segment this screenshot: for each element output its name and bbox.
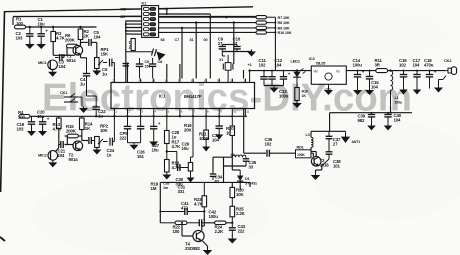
IC IC2 regulator <box>309 56 346 92</box>
IC1 bottom pin 4 <box>154 109 157 117</box>
svg-text:R8 10K: R8 10K <box>278 21 290 25</box>
capacitor C6 coupling <box>102 59 114 77</box>
IC1 top pin 14 <box>217 79 221 83</box>
svg-text:100: 100 <box>173 229 181 234</box>
svg-text:15K: 15K <box>101 51 110 56</box>
net label B1 <box>120 15 125 19</box>
capacitor C18 <box>424 58 437 89</box>
svg-text:331: 331 <box>178 189 186 194</box>
svg-text:470u: 470u <box>424 62 434 67</box>
svg-text:Electronics-DIY.com: Electronics-DIY.com <box>42 77 412 120</box>
IC1 top pin 12 <box>243 79 247 83</box>
svg-text:4.7K: 4.7K <box>194 201 204 206</box>
resistor R15 <box>66 124 78 138</box>
capacitor C16 <box>399 58 408 95</box>
svg-text:222: 222 <box>120 135 128 140</box>
svg-text:00: 00 <box>204 38 208 42</box>
svg-text:10K: 10K <box>236 192 245 197</box>
svg-text:10K: 10K <box>100 128 109 133</box>
capacitor C5 <box>89 30 101 46</box>
IC1 bottom pin 11 <box>245 109 249 117</box>
IC1 top pin 20 <box>138 79 142 83</box>
resistor R13 <box>53 116 63 131</box>
label plus rail <box>248 63 252 67</box>
svg-text:Vo: Vo <box>336 70 340 74</box>
label C8p <box>145 60 152 68</box>
ground crystal caps <box>247 50 256 57</box>
switch K1 element 6 <box>143 33 155 36</box>
page top border <box>4 7 253 12</box>
switch block K1 outline <box>142 0 159 37</box>
wire R9 to bus <box>267 27 276 29</box>
transistor T3 <box>311 157 329 168</box>
resistor R1 <box>15 17 26 29</box>
svg-text:102: 102 <box>259 62 267 67</box>
capacitor C8 tilted with ground <box>152 49 166 65</box>
wire R3 to T1 base <box>53 42 75 56</box>
node K1 left bus joints <box>125 23 127 32</box>
transistor T4 <box>185 230 204 251</box>
resistor R20b <box>230 187 245 197</box>
wire R7 to bus <box>267 16 276 18</box>
resistor R7 <box>256 16 290 20</box>
resistor R14 <box>80 116 94 131</box>
resistor R4 <box>18 110 30 119</box>
ground below C20 <box>38 130 47 137</box>
wire K1 left row1 <box>122 8 142 10</box>
wire pull-up bus vertical <box>274 17 276 70</box>
wire L1 to RF rail <box>390 106 392 113</box>
capacitor C32 <box>212 116 223 142</box>
resistor R25 <box>230 198 246 224</box>
svg-text:4.7K: 4.7K <box>53 126 63 131</box>
svg-text:ANT1: ANT1 <box>352 140 361 144</box>
svg-text:100u: 100u <box>353 62 363 67</box>
ground below C1 <box>36 42 46 49</box>
resistor R19 small box <box>187 157 195 183</box>
IC1 top pin 16 <box>191 79 195 83</box>
wire caps bottom tie <box>264 85 284 87</box>
resistor R11 <box>375 58 388 73</box>
svg-text:1M: 1M <box>151 186 157 191</box>
capacitor C20 <box>37 110 50 131</box>
capacitor C2 <box>16 27 34 44</box>
capacitor C1 <box>38 17 49 44</box>
svg-text:151: 151 <box>137 154 145 159</box>
capacitor C29 <box>177 142 190 168</box>
IC1 bottom pin 2 <box>128 109 131 117</box>
capacitor C26 <box>137 116 145 159</box>
ground below R18 <box>162 172 171 190</box>
capacitor C19 <box>17 116 36 131</box>
svg-text:R9 10K: R9 10K <box>278 27 290 31</box>
svg-text:10u: 10u <box>38 21 46 26</box>
capacitor C38 <box>322 145 341 169</box>
resistor R10 <box>256 31 292 35</box>
wire RD1 to T3 base <box>311 153 313 156</box>
capacitor C23 series <box>89 137 97 144</box>
svg-text:104: 104 <box>58 153 66 158</box>
svg-text:10: 10 <box>226 130 231 135</box>
capacitor C27 <box>149 116 161 152</box>
wire R10 to bus <box>267 31 276 33</box>
capacitor C30 series <box>176 164 189 186</box>
capacitor C7b on bus <box>123 64 130 66</box>
IC1 top pin 15 <box>204 79 208 83</box>
IC1 bottom pin 9 <box>219 109 222 117</box>
ground below MIC1 <box>48 70 57 77</box>
svg-text:78L05: 78L05 <box>316 61 326 65</box>
svg-text:C8: C8 <box>158 60 163 64</box>
ground below CK1 <box>79 107 88 114</box>
label drop a <box>161 38 165 42</box>
wire K1 left row3 <box>122 15 142 17</box>
svg-text:C7: C7 <box>175 38 180 42</box>
crystal X1 <box>219 52 233 83</box>
inductor L1 <box>391 71 402 106</box>
capacitor C9 crystal load <box>218 37 226 52</box>
capacitor C36 <box>265 137 273 157</box>
svg-text:100: 100 <box>18 114 26 119</box>
capacitor C22 <box>87 86 107 118</box>
svg-text:102: 102 <box>265 141 273 146</box>
wire pin6 drop <box>191 116 194 157</box>
svg-text:222: 222 <box>238 228 246 233</box>
bus junction dots <box>95 115 234 117</box>
node R2 junction <box>79 26 81 28</box>
ground below MIC2 <box>48 161 57 168</box>
node C2 junction <box>29 26 31 28</box>
svg-text:2SD882: 2SD882 <box>185 246 201 251</box>
wire K1 left bus <box>126 21 142 83</box>
svg-text:103: 103 <box>17 126 25 131</box>
wire R24 to C43 node <box>226 222 232 224</box>
label C31 <box>178 185 186 194</box>
ground below C19 <box>27 130 36 137</box>
IC U1 BH1417F body <box>111 83 255 109</box>
wire R14 to T2 collector <box>78 130 88 141</box>
resistor R17 <box>165 116 182 149</box>
wire Vcc drop to IC pin <box>248 69 250 82</box>
svg-text:1u: 1u <box>172 134 177 139</box>
resistor RD1 boxed <box>296 146 312 158</box>
label drop d <box>204 38 208 42</box>
wire D1 top <box>224 136 247 191</box>
svg-text:101: 101 <box>333 163 341 168</box>
IC1 bottom pin 6 <box>180 109 183 117</box>
ground below C43 <box>228 237 238 244</box>
capacitor above IC b <box>149 58 156 79</box>
capacitor C15 <box>365 71 379 95</box>
capacitor C37 <box>326 131 341 146</box>
svg-text:R7 10K: R7 10K <box>278 16 290 20</box>
label drop b <box>175 38 180 42</box>
microphone MIC1 <box>38 60 57 70</box>
svg-text:31: 31 <box>190 38 194 42</box>
capacitor C40rf <box>384 113 402 131</box>
svg-text:27: 27 <box>333 141 338 146</box>
IC1 top pin 17 <box>178 79 182 83</box>
transistor T2 <box>69 141 83 162</box>
capacitor C13 <box>279 71 291 99</box>
ground below RP1 <box>92 69 101 76</box>
svg-text:R10 10K: R10 10K <box>278 31 292 35</box>
wire K1 right rows <box>159 9 256 33</box>
capacitor C35 <box>243 157 257 169</box>
svg-text:20K: 20K <box>184 127 193 132</box>
svg-text:200K: 200K <box>66 128 77 133</box>
svg-text:33: 33 <box>249 164 254 169</box>
IC1 top pin 13 <box>230 79 234 83</box>
wire T1 collector to C5 <box>81 42 88 44</box>
svg-text:472: 472 <box>181 205 189 210</box>
svg-text:100K: 100K <box>199 136 210 141</box>
svg-text:Vin: Vin <box>314 70 319 74</box>
ground below IC2 <box>324 84 333 95</box>
resistor R2 <box>78 27 90 40</box>
capacitor C4 <box>80 58 90 87</box>
resistor R18 <box>165 144 182 173</box>
svg-text:103: 103 <box>16 35 24 40</box>
svg-text:4.7K: 4.7K <box>172 144 182 149</box>
svg-text:IC2: IC2 <box>309 56 316 61</box>
capacitor C43 <box>229 223 246 237</box>
svg-text:CK2: CK2 <box>444 58 452 63</box>
svg-text:9014: 9014 <box>67 58 77 63</box>
page edge mark lower-left <box>0 237 5 241</box>
wire R1 to R3 node <box>26 26 97 28</box>
IC1 top pin 19 <box>152 79 156 83</box>
transistor T1 <box>67 46 83 63</box>
svg-text:10u: 10u <box>152 147 160 152</box>
resistor R9 <box>256 26 290 30</box>
wire crystal caps join <box>222 45 251 52</box>
node R17 R18 <box>166 150 177 152</box>
resistor R24 <box>215 221 227 234</box>
potentiometer RP1 <box>95 47 110 69</box>
IC1 bottom pin 8 <box>206 109 209 117</box>
diode D1 varactor <box>237 170 257 186</box>
wire R1 loop to top rail <box>13 17 256 26</box>
ground below C2 <box>25 42 35 49</box>
svg-text:D1: D1 <box>245 177 250 181</box>
svg-text:W2: W2 <box>120 7 125 11</box>
IC1 top pin 18 <box>165 79 169 83</box>
wire RF rail <box>330 112 412 114</box>
connector CK1 line-in jack <box>60 90 82 107</box>
resistor R8 <box>256 21 290 25</box>
svg-text:X1: X1 <box>219 58 223 62</box>
node C1 junction <box>40 26 42 28</box>
LED LED1 <box>291 59 306 88</box>
wire C36 to RD1 <box>269 152 295 154</box>
switch K1 element 1 <box>143 7 155 10</box>
capacitor C28 label <box>172 130 180 139</box>
resistor R6 <box>65 33 78 48</box>
IC1 bottom pin 5 <box>167 109 170 117</box>
antenna ANT1 <box>341 131 360 144</box>
IC1 bottom pin 7 <box>193 109 196 117</box>
svg-text:104: 104 <box>413 62 421 67</box>
capacitor C17 <box>413 58 422 95</box>
svg-text:L3: L3 <box>306 133 310 137</box>
svg-text:82: 82 <box>215 179 220 184</box>
ground below T3 <box>311 173 321 181</box>
wire R13 to T2 base <box>59 129 68 145</box>
wire T4 base <box>182 223 193 236</box>
wire L3/collector <box>311 113 346 157</box>
capacitor CP5 <box>120 116 132 142</box>
svg-text:9014: 9014 <box>69 157 79 162</box>
capacitor C10 crystal load <box>233 37 241 52</box>
node bottom joins <box>159 210 205 224</box>
svg-text:100: 100 <box>16 21 24 26</box>
capacitor C24 <box>103 116 115 157</box>
ground below R16 <box>292 101 302 109</box>
wire bottom section top rail <box>160 182 250 222</box>
microphone MIC2 <box>38 151 58 161</box>
svg-text:200K: 200K <box>65 37 76 42</box>
node RF <box>371 112 392 114</box>
IC1 top pin 22 <box>112 79 116 83</box>
wire IC pin11 to C36 <box>244 109 266 154</box>
wire switch drops to IC pins <box>182 17 234 78</box>
node R3 junction <box>52 26 54 28</box>
switch K1 element 5 <box>143 28 155 31</box>
node T1 base <box>63 54 65 56</box>
svg-text:104: 104 <box>212 137 220 142</box>
svg-text:+1: +1 <box>248 63 252 67</box>
capacitor C14 <box>353 58 365 95</box>
resistor R5 <box>131 39 135 51</box>
capacitor C34 <box>210 172 223 184</box>
capacitor C11 <box>259 58 268 86</box>
svg-text:MIC1: MIC1 <box>38 60 48 65</box>
capacitor C12 <box>268 58 282 86</box>
ground CP5 C26 <box>128 143 141 150</box>
IC1 bottom pin 3 <box>141 109 144 117</box>
ground C11-C13 <box>270 86 279 93</box>
label drop c <box>190 38 194 42</box>
svg-text:68: 68 <box>161 38 165 42</box>
capacitor C7 <box>126 40 153 52</box>
junction rail LED <box>263 69 298 71</box>
net label W2 <box>120 7 125 11</box>
wire T4 collector <box>202 218 205 231</box>
svg-text:2.2K: 2.2K <box>236 211 246 216</box>
svg-text:1m: 1m <box>163 186 169 190</box>
wire R6 to collector <box>78 44 81 46</box>
wire MIC2 to C21 <box>55 145 59 153</box>
ground below RP2 <box>92 148 101 155</box>
ground below CK2 <box>434 86 443 93</box>
svg-text:1u: 1u <box>107 152 112 157</box>
svg-text:104: 104 <box>94 34 102 39</box>
label R19b <box>151 182 159 191</box>
resistor R23 <box>194 182 207 211</box>
wire R8 to bus <box>267 22 276 24</box>
resistor R22b <box>160 221 199 234</box>
capacitor C3 <box>55 54 66 69</box>
connector CK2 power jack <box>439 58 457 86</box>
wire T2 base join <box>65 144 75 146</box>
wire main bus under IC <box>29 115 247 117</box>
ground below T4 <box>203 249 213 255</box>
capacitor C21 <box>58 141 66 158</box>
wire C42 to R24 <box>202 222 215 224</box>
svg-text:C9: C9 <box>145 60 150 64</box>
inductor L2 <box>231 153 247 157</box>
wire T3 emitter <box>316 166 322 173</box>
wire top pins risers <box>114 60 243 79</box>
capacitor above IC a <box>136 58 143 79</box>
wire Vcc rail <box>250 70 445 72</box>
svg-text:B1: B1 <box>120 15 125 19</box>
resistor R3 <box>51 27 66 42</box>
wire T1 emitter <box>81 55 87 58</box>
wire R23 node down <box>203 212 205 219</box>
svg-text:100K: 100K <box>297 153 305 157</box>
wire T4 emitter <box>203 241 208 249</box>
wire R2 to T1 collector <box>80 40 82 45</box>
svg-text:RD1: RD1 <box>297 146 304 150</box>
svg-text:10u: 10u <box>182 146 190 151</box>
capacitor C41 <box>160 201 204 215</box>
svg-text:102: 102 <box>399 62 407 67</box>
wire osc row <box>213 157 232 182</box>
capacitor C39rf <box>358 113 376 131</box>
capacitor C42 <box>199 210 218 227</box>
potentiometer RP2 <box>95 124 109 148</box>
svg-text:2.2K: 2.2K <box>215 229 225 234</box>
IC1 bottom pin 10 <box>232 109 236 117</box>
resistor R21 <box>199 116 210 151</box>
inductor L3 <box>306 133 314 147</box>
junction rail right <box>357 69 431 71</box>
svg-text:104: 104 <box>275 62 283 67</box>
resistor R16led <box>295 88 308 101</box>
switch K1 element 3 <box>143 18 155 21</box>
node K1 right joints <box>166 8 235 29</box>
svg-text:100u: 100u <box>209 214 219 219</box>
svg-text:104: 104 <box>59 64 67 69</box>
resistor R22v <box>226 116 235 135</box>
IC1 top pin 21 <box>125 79 129 83</box>
svg-text:LED1: LED1 <box>291 59 301 64</box>
label R16mid <box>184 123 193 132</box>
wire C5 to RP1 <box>91 42 97 57</box>
page left border <box>1 12 5 193</box>
switch K1 element 4 <box>143 23 155 26</box>
IC1 bottom pin 1 <box>114 109 117 117</box>
svg-text:MIC2: MIC2 <box>38 153 48 158</box>
switch K1 element 2 <box>143 12 155 15</box>
